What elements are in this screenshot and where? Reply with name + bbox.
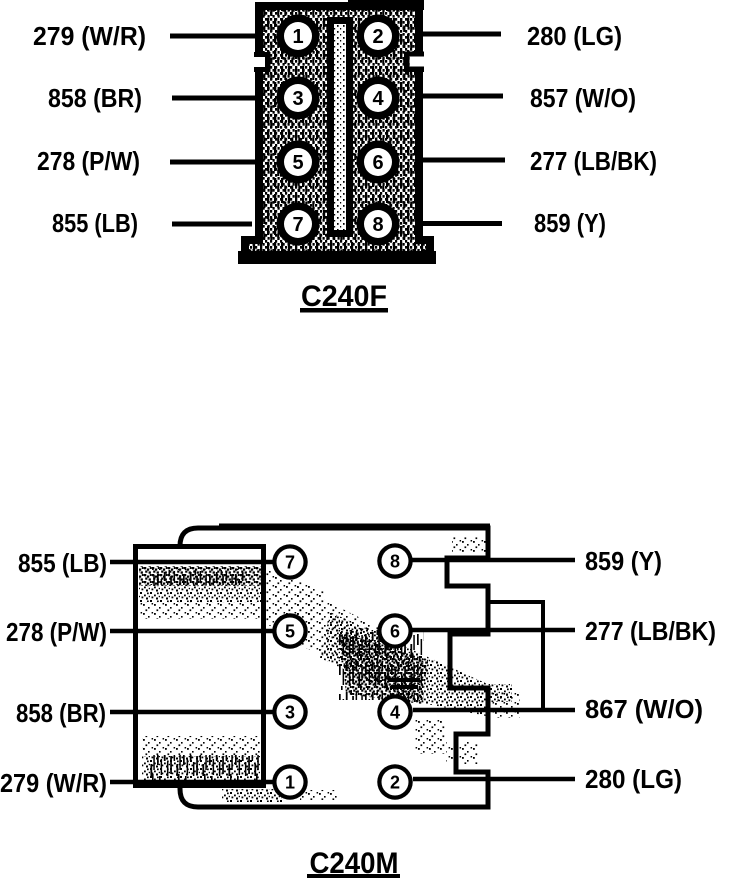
wire leader 279 (W/R) — [170, 34, 258, 39]
svg-text:4: 4 — [390, 703, 400, 723]
pin 7 (C240M) — [272, 544, 308, 580]
svg-text:857 (W/O): 857 (W/O) — [530, 83, 636, 113]
svg-text:1: 1 — [292, 26, 303, 48]
pin 6 (C240F) — [357, 141, 400, 184]
pin 6 (C240M) — [377, 613, 413, 649]
svg-text:280 (LG): 280 (LG) — [585, 764, 682, 794]
wire leader 859 (Y) bottom — [412, 558, 575, 563]
pin 5 (C240M) — [272, 613, 308, 649]
svg-text:858 (BR): 858 (BR) — [48, 83, 142, 113]
svg-text:859 (Y): 859 (Y) — [534, 208, 606, 238]
svg-text:859 (Y): 859 (Y) — [585, 546, 662, 576]
wire leader 280 (LG) bottom — [413, 777, 575, 782]
svg-text:855 (LB): 855 (LB) — [18, 548, 107, 578]
svg-text:2: 2 — [390, 773, 400, 793]
connector C240F body hatch overlay — [245, 6, 430, 258]
pin 2 (C240F) — [357, 15, 400, 58]
pin 4 (C240M) — [377, 694, 413, 730]
pin 3 (C240F) — [277, 77, 320, 120]
svg-text:2: 2 — [372, 26, 383, 48]
connector C240F left key slit — [254, 52, 271, 72]
wire leader 278 (P/W) top — [170, 160, 258, 165]
pin 4 (C240F) — [357, 77, 400, 120]
svg-text:7: 7 — [292, 214, 303, 236]
wire leader 859 (Y) top — [418, 221, 502, 226]
svg-text:279 (W/R): 279 (W/R) — [33, 21, 146, 51]
svg-text:277 (LB/BK): 277 (LB/BK) — [585, 616, 716, 646]
wire leader 858 (BR) bottom — [110, 710, 273, 715]
connector C240F right column hatch — [390, 10, 415, 238]
svg-text:280 (LG): 280 (LG) — [527, 21, 622, 51]
pin 8 (C240F) — [357, 203, 400, 246]
wire leader 280 (LG) — [418, 32, 501, 37]
svg-text:278 (P/W): 278 (P/W) — [6, 617, 107, 647]
connector C240F body — [245, 6, 430, 258]
svg-text:277 (LB/BK): 277 (LB/BK) — [530, 146, 657, 176]
svg-text:6: 6 — [372, 152, 383, 174]
svg-text:1: 1 — [285, 773, 295, 793]
pin 5 (C240F) — [277, 141, 320, 184]
svg-text:C240M: C240M — [310, 847, 399, 878]
wire leader 867 (W/O) bottom — [413, 708, 575, 713]
svg-text:6: 6 — [390, 622, 400, 642]
pin 8 (C240M) — [377, 543, 413, 579]
wire leader 277 (LB/BK) top — [418, 158, 505, 163]
svg-text:278 (P/W): 278 (P/W) — [37, 146, 140, 176]
wire leader 277 (LB/BK) bottom — [412, 628, 575, 633]
connector C240F bottom band — [238, 251, 436, 264]
svg-text:855 (LB): 855 (LB) — [52, 208, 138, 238]
svg-text:3: 3 — [285, 703, 295, 723]
connector C240M body — [180, 528, 488, 807]
wire leader 279 (W/R) bottom — [110, 780, 273, 785]
svg-text:5: 5 — [292, 152, 303, 174]
pin 7 (C240F) — [277, 203, 320, 246]
pin 1 (C240F) — [277, 15, 320, 58]
svg-text:279 (W/R): 279 (W/R) — [0, 768, 107, 798]
wire leader 855 (LB) top — [172, 222, 252, 227]
wire leader 278 (P/W) bottom — [110, 629, 273, 634]
svg-text:7: 7 — [285, 553, 295, 573]
svg-text:8: 8 — [372, 214, 383, 236]
connector C240F top lip — [348, 0, 424, 10]
pin 1 (C240M) — [272, 764, 308, 800]
connector C240M key tab — [489, 602, 543, 709]
svg-text:867 (W/O): 867 (W/O) — [585, 694, 703, 724]
connector C240F right key slit — [404, 52, 424, 73]
pin 2 (C240M) — [377, 764, 413, 800]
wire bundle block (C240M left) — [136, 547, 264, 786]
svg-text:4: 4 — [372, 88, 384, 110]
pin 3 (C240M) — [272, 694, 308, 730]
wire leader 855 (LB) bottom — [110, 560, 273, 565]
svg-text:858 (BR): 858 (BR) — [16, 698, 106, 728]
wire leader 858 (BR) top — [172, 96, 258, 101]
wire leader 857 (W/O) — [418, 94, 503, 99]
svg-text:3: 3 — [292, 88, 303, 110]
noise band diagonal (scan artifact) — [266, 568, 325, 642]
svg-text:8: 8 — [390, 552, 400, 572]
connector C240F center slot — [331, 21, 350, 234]
svg-text:5: 5 — [285, 622, 295, 642]
